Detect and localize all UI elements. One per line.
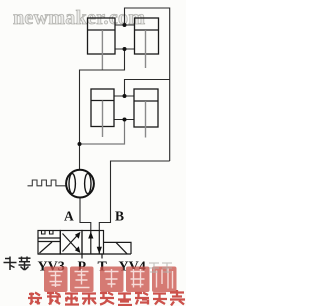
wire: row1 top to outer right line, down right side bbox=[125, 8, 170, 161]
port P stub bbox=[81, 254, 83, 259]
piston rod row2 right bbox=[145, 101, 147, 138]
piston rod row1 left bbox=[101, 30, 103, 70]
node: junction row2 top bbox=[123, 94, 127, 98]
piston rod row1 right bbox=[145, 30, 147, 68]
wire: row1 bottom ports bbox=[115, 48, 135, 50]
valve V1 right end box (solenoid YV4) bbox=[104, 242, 132, 254]
cylinder row2 left bbox=[91, 89, 114, 127]
cylinder row2 right bbox=[134, 89, 158, 127]
node: junction row2 bottom bbox=[123, 118, 127, 122]
wire: B feed from outer line to valve bbox=[99, 161, 169, 231]
wire: row1 bottom junction down, left, down left loop to motor bbox=[80, 49, 125, 170]
red watermark bottom text (射频和天线设计专家) bbox=[28, 290, 185, 306]
node: junction row1 top bbox=[123, 23, 127, 27]
pulse signal (square wave) bbox=[28, 180, 67, 186]
faint gray watermark chars bbox=[149, 263, 172, 273]
wire: row1 top ports bbox=[115, 24, 135, 26]
valve V1 position 2 (parallel arrows) bbox=[82, 231, 104, 255]
node: junction row1 bottom bbox=[123, 47, 127, 51]
tile glyph strokes (white) bbox=[49, 269, 173, 289]
motor M1 (circle with seams) bbox=[66, 170, 94, 198]
wire: row2 top ports bbox=[114, 95, 134, 97]
valve V1 position 1 (crossed arrows) bbox=[60, 231, 82, 255]
wire: row2 bottom ports bbox=[114, 119, 134, 121]
port T stub bbox=[101, 254, 103, 259]
wire: row2 top junction up and right to outer line bbox=[125, 80, 170, 97]
svg-text:B: B bbox=[115, 209, 124, 224]
label 卡紧 (clamp) hand strokes bbox=[4, 257, 31, 271]
piston rod row2 left bbox=[102, 101, 104, 138]
cylinder row1 right bbox=[135, 18, 159, 54]
red watermark tiles bbox=[44, 267, 177, 293]
wire: A feed from motor bottom to valve bbox=[80, 198, 91, 231]
svg-text:A: A bbox=[64, 209, 74, 224]
wire: row2 bottom junction down and left (gray) bbox=[80, 120, 125, 145]
valve V1 left end box (spring + solenoid YV3) bbox=[38, 231, 60, 255]
node: junction left loop bbox=[78, 142, 82, 146]
cylinder row1 left bbox=[88, 18, 116, 54]
valve V1 bottom edge bbox=[38, 253, 131, 255]
